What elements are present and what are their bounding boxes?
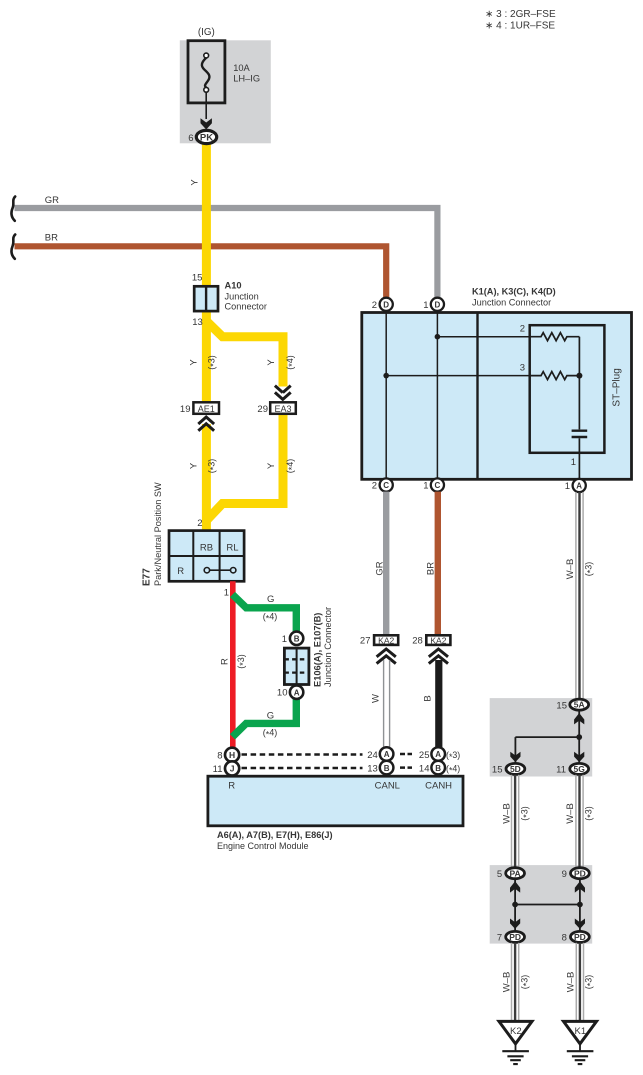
svg-text:14: 14 [419, 763, 430, 774]
svg-text:13: 13 [367, 763, 378, 774]
wire W-B PD8 to ground K1 [576, 943, 583, 1021]
junction dot [576, 734, 582, 740]
ST-Plug box [520, 324, 623, 453]
svg-text:W–B: W–B [502, 972, 513, 993]
node 8 H [225, 748, 239, 762]
svg-text:CANL: CANL [375, 781, 400, 792]
svg-text:W–B: W–B [565, 803, 576, 824]
wire B black [435, 660, 442, 748]
svg-text:D: D [435, 301, 441, 310]
svg-text:A: A [384, 750, 390, 759]
node 5 PA [506, 868, 525, 879]
arrow down into PD7 [510, 919, 520, 929]
svg-text:Connector: Connector [225, 301, 267, 311]
svg-text:15: 15 [556, 700, 567, 711]
svg-text:LH–IG: LH–IG [233, 74, 260, 84]
node 24 A [380, 747, 394, 761]
wire BR vertical to KA2 [435, 492, 441, 634]
arrow down into PD8 [575, 919, 585, 929]
svg-text:∗ 3 : 2GR–FSE: ∗ 3 : 2GR–FSE [485, 9, 556, 20]
junction connector K1(A),K3(C),K4(D) [362, 287, 632, 480]
wire vertical in ST-plug [578, 337, 580, 479]
svg-text:BR: BR [45, 232, 58, 243]
svg-text:PD: PD [574, 932, 586, 942]
svg-text:Junction: Junction [225, 292, 259, 302]
node 1 D [431, 298, 444, 311]
internal tap to pin3 [386, 375, 530, 377]
arrow up into PA [510, 881, 520, 892]
wire BR horizontal [15, 246, 387, 299]
resistor pin2 [530, 333, 580, 341]
wire Y lower segment to E77 [202, 424, 211, 531]
junction connector E106/E107 [284, 648, 309, 684]
svg-text:7: 7 [497, 933, 502, 944]
wire Y right branch lower [206, 414, 283, 521]
svg-text:A: A [294, 688, 300, 697]
svg-text:10A: 10A [233, 63, 250, 73]
svg-text:PK: PK [200, 132, 213, 143]
wire W-B from 1A to 5A [576, 492, 583, 699]
svg-text:5D: 5D [510, 764, 521, 774]
svg-text:5G: 5G [574, 764, 586, 774]
svg-text:15: 15 [192, 273, 203, 284]
svg-text:(*3): (*3) [207, 459, 219, 474]
svg-text:Y: Y [266, 359, 277, 366]
ground K2 [499, 1021, 532, 1064]
arrow down into 5D [510, 752, 520, 762]
svg-text:W–B: W–B [565, 559, 576, 580]
svg-text:PA: PA [510, 868, 521, 878]
node 1 A [573, 479, 586, 492]
gray group PA/PD [490, 865, 593, 944]
label E77 Park/Neutral Position SW [142, 482, 164, 586]
svg-text:EA3: EA3 [274, 404, 291, 414]
svg-text:W–B: W–B [566, 972, 577, 993]
svg-text:Y: Y [189, 462, 200, 469]
break squiggle GR [11, 197, 15, 221]
gray group 5A/5D/5G [490, 698, 593, 776]
fuse 10A LH-IG [188, 27, 260, 119]
node 8 PD [571, 931, 590, 942]
switch E77 park/neutral position [169, 531, 244, 582]
wire G upper [233, 595, 297, 632]
svg-text:2: 2 [372, 481, 377, 492]
svg-text:PD: PD [509, 932, 521, 942]
svg-text:8: 8 [217, 750, 222, 761]
resistor pin3 [530, 372, 580, 380]
svg-text:(*3): (*3) [520, 975, 532, 990]
svg-text:8: 8 [562, 933, 567, 944]
wire W-B PD7 to ground K2 [512, 943, 519, 1021]
ECM dashed line row 2 [242, 767, 363, 770]
connector 27 KA2 [360, 635, 398, 663]
svg-text:ST–Plug: ST–Plug [612, 368, 623, 406]
connector 29 EA3 [257, 386, 295, 415]
arrow up into 5A [574, 713, 584, 724]
arrow up into PD9 [575, 881, 585, 892]
svg-text:11: 11 [556, 765, 566, 776]
svg-text:Y: Y [266, 462, 277, 469]
svg-text:RL: RL [226, 543, 238, 554]
svg-text:W: W [371, 694, 382, 703]
svg-text:R: R [220, 658, 231, 665]
node 11 5G [570, 763, 589, 774]
svg-text:W–B: W–B [502, 803, 513, 824]
svg-text:G: G [267, 594, 274, 605]
wire to 5D [514, 737, 516, 762]
internal wire D1-C1 [436, 313, 438, 479]
svg-text:19: 19 [180, 404, 191, 415]
svg-text:13: 13 [192, 317, 203, 328]
svg-text:1: 1 [565, 481, 570, 492]
svg-text:B: B [423, 695, 434, 701]
arrow down into 5G [574, 752, 584, 762]
svg-text:11: 11 [213, 764, 223, 775]
svg-text:A6(A), A7(B), E7(H), E86(J): A6(A), A7(B), E7(H), E86(J) [217, 830, 333, 840]
svg-text:PD: PD [574, 868, 586, 878]
svg-text:(*3): (*3) [446, 750, 460, 762]
wire W-B 5G to PD [576, 775, 583, 868]
node 14 B [431, 761, 445, 775]
svg-text:Engine Control Module: Engine Control Module [217, 841, 309, 851]
wire Y right branch upper [206, 321, 283, 387]
svg-text:K1(A), K3(C), K4(D): K1(A), K3(C), K4(D) [472, 287, 556, 297]
node 25 A [431, 747, 445, 761]
junction connector A10 [192, 273, 267, 329]
wire GR vertical to KA2 [383, 492, 389, 634]
node 6 PK [188, 130, 216, 143]
node 2 D [380, 298, 393, 311]
svg-text:(*3): (*3) [584, 562, 596, 577]
svg-text:6: 6 [188, 133, 193, 144]
node 15 5D [506, 763, 525, 774]
svg-text:1: 1 [224, 588, 229, 599]
capacitor in ST-plug [572, 431, 588, 437]
svg-text:R: R [177, 566, 184, 577]
svg-text:2: 2 [520, 324, 525, 335]
svg-text:K1: K1 [574, 1026, 586, 1037]
node 2 C [380, 478, 393, 491]
node 7 PD [506, 931, 525, 942]
ECM dashed line row 1 [242, 753, 363, 756]
svg-text:H: H [229, 750, 235, 760]
svg-text:E77: E77 [142, 568, 153, 586]
svg-text:E106(A), E107(B): E106(A), E107(B) [313, 613, 323, 687]
svg-text:29: 29 [257, 404, 268, 415]
node 1 B [290, 632, 303, 645]
svg-text:Y: Y [190, 179, 201, 186]
svg-text:B: B [435, 764, 441, 773]
svg-text:Junction Connector: Junction Connector [472, 298, 551, 308]
svg-text:1: 1 [423, 481, 428, 492]
svg-text:(*4): (*4) [263, 728, 278, 740]
svg-text:(IG): (IG) [198, 27, 215, 38]
wire GR horizontal [15, 208, 438, 299]
node 15 5A [570, 699, 589, 710]
svg-text:2: 2 [372, 300, 377, 311]
svg-text:C: C [435, 481, 441, 490]
internal wire D2-C2 [385, 313, 387, 479]
fuse block shading [180, 40, 271, 143]
svg-text:A: A [435, 750, 441, 759]
svg-text:Y: Y [189, 359, 200, 366]
svg-text:B: B [384, 764, 390, 773]
wires inside PA/PD group [515, 880, 580, 931]
node 11 J [225, 761, 239, 775]
node 13 B [380, 761, 394, 775]
svg-text:KA2: KA2 [378, 636, 394, 646]
svg-text:3: 3 [520, 363, 525, 374]
svg-text:A10: A10 [225, 281, 242, 291]
ground K1 [564, 1021, 597, 1064]
svg-text:Park/Neutral Position SW: Park/Neutral Position SW [153, 482, 163, 586]
wire W white [384, 660, 390, 748]
svg-text:5A: 5A [574, 700, 585, 710]
svg-text:1: 1 [571, 457, 576, 468]
svg-text:J: J [230, 764, 235, 774]
svg-text:Junction Connector: Junction Connector [323, 607, 333, 687]
label Y (*3) lower left branch [189, 459, 297, 474]
wire Y main vertical [202, 144, 211, 404]
break squiggle BR [11, 235, 15, 259]
wire R red [230, 581, 236, 748]
svg-text:D: D [383, 301, 389, 310]
node 9 PD [571, 868, 590, 879]
svg-text:1: 1 [282, 634, 287, 645]
svg-text:R: R [228, 781, 235, 792]
junction node in ST-plug [576, 373, 582, 379]
svg-text:28: 28 [412, 636, 423, 647]
svg-text:(*3): (*3) [584, 975, 596, 990]
svg-text:B: B [294, 634, 300, 643]
svg-text:GR: GR [375, 561, 386, 575]
connector 19 AE1 [180, 402, 219, 431]
wire W-B 5A to junction [578, 711, 580, 763]
svg-text:5: 5 [497, 869, 502, 880]
svg-text:15: 15 [492, 765, 503, 776]
svg-text:(*4): (*4) [285, 355, 297, 370]
svg-text:24: 24 [367, 750, 378, 761]
svg-text:AE1: AE1 [198, 404, 215, 414]
engine control module box [208, 776, 463, 826]
svg-text:2: 2 [197, 518, 202, 529]
node 10 A [290, 686, 303, 699]
svg-text:C: C [383, 481, 389, 490]
svg-text:GR: GR [45, 195, 59, 206]
svg-text:9: 9 [562, 869, 567, 880]
internal tap to pin2 [437, 336, 529, 338]
svg-text:A: A [576, 482, 582, 491]
svg-text:10: 10 [277, 688, 288, 699]
svg-text:1: 1 [423, 300, 428, 311]
svg-text:(*3): (*3) [207, 355, 219, 370]
svg-text:BR: BR [426, 562, 437, 575]
svg-text:CANH: CANH [425, 781, 452, 792]
svg-text:(*4): (*4) [285, 459, 297, 474]
svg-text:(*3): (*3) [520, 806, 532, 821]
label Y (*3) upper left branch [189, 355, 297, 370]
svg-text:K2: K2 [510, 1026, 522, 1037]
svg-text:25: 25 [419, 750, 430, 761]
arrow into pin 6 [201, 118, 212, 129]
svg-text:G: G [267, 711, 274, 722]
svg-text:(*3): (*3) [583, 806, 595, 821]
connector 28 KA2 [412, 635, 450, 663]
svg-text:(*4): (*4) [446, 763, 460, 775]
svg-text:KA2: KA2 [430, 636, 446, 646]
wire W-B 5D to PA [512, 775, 519, 868]
svg-text:RB: RB [200, 543, 213, 554]
svg-text:(*4): (*4) [263, 611, 278, 623]
wire junction horizontal [515, 736, 579, 738]
note *3 *4 legend [485, 9, 556, 32]
svg-text:27: 27 [360, 636, 371, 647]
svg-text:(*3): (*3) [236, 654, 248, 669]
svg-text:∗ 4 : 1UR–FSE: ∗ 4 : 1UR–FSE [485, 21, 555, 32]
node 1 C [431, 478, 444, 491]
wire G lower [233, 699, 297, 737]
